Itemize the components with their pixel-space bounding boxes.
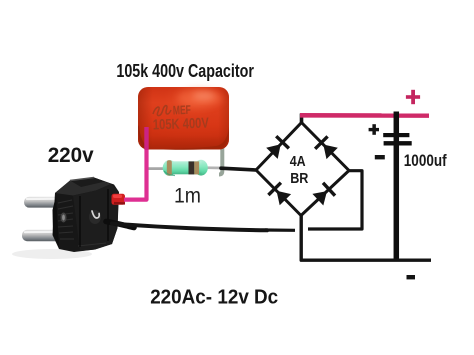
svg-text:220v: 220v: [48, 143, 94, 167]
plug body: [53, 178, 120, 253]
label: magenta + (DC positive): [406, 90, 420, 104]
svg-text:1m: 1m: [174, 184, 201, 207]
diode D2 (top-right, cathode toward + vertex): [315, 136, 338, 159]
bridge rectifier BR1 : diamond: [256, 123, 349, 216]
logo on capacitor: [153, 106, 171, 116]
node: red terminal on plug where pink wire lands: [112, 194, 126, 205]
plug P1 (220v mains plug photo): [12, 178, 119, 260]
svg-text:BR: BR: [290, 171, 309, 187]
wire: AC node from R1/C1 junction to bridge left vertex: [221, 168, 256, 170]
svg-text:4A: 4A: [290, 154, 306, 170]
wire: loop from bridge AC right vertex, right then down then left: [308, 171, 362, 229]
wire: pink DC+ rail: [300, 113, 429, 118]
shadow under plug: [12, 249, 92, 259]
wire: black wire exiting plug body: [106, 222, 134, 228]
label: + at C2: [369, 124, 379, 135]
wire: drawn extension of black mains wire to crossover gap: [265, 228, 295, 232]
svg-text:1000uf: 1000uf: [404, 151, 447, 170]
diode D3 (bottom-left, cathode toward AC-left vertex): [268, 183, 291, 206]
capacitor C2 plate (top): [383, 133, 409, 137]
wire: DC- from bridge bottom vertex down then right (bottom rail): [301, 216, 431, 261]
capacitor C2 plate (bottom): [384, 141, 412, 145]
svg-text:105K 400V: 105K 400V: [153, 116, 210, 134]
wire: DC+ vertical line through capacitor C2: [394, 112, 400, 261]
wire: stub from bridge + vertex up to pink rail: [300, 114, 304, 125]
pin (top): [24, 197, 64, 208]
capacitor C1 right lead (grey) down to resistor junction: [219, 146, 222, 175]
capacitor C1 body (105k 400v film capacitor photo): [138, 87, 229, 150]
resistor R1 body (1m resistor photo): [163, 160, 208, 176]
diode D1 (top-left, cathode toward + vertex): [266, 136, 289, 159]
label: - at C2: [375, 155, 385, 159]
diode D4 (bottom-right, cathode toward AC-right vertex): [312, 183, 335, 206]
label: - (DC negative, bottom right): [407, 275, 416, 279]
wire: black mains wire from plug running right: [112, 224, 267, 231]
wire: pink lead of capacitor C1 down and left to plug terminal: [124, 127, 147, 200]
svg-text:220Ac- 12v Dc: 220Ac- 12v Dc: [150, 285, 278, 308]
resistor R1 left lead: [147, 167, 166, 170]
resistor R1 right lead: [205, 166, 222, 169]
pin (bottom): [22, 230, 62, 241]
svg-text:105k 400v Capacitor: 105k 400v Capacitor: [116, 61, 254, 81]
